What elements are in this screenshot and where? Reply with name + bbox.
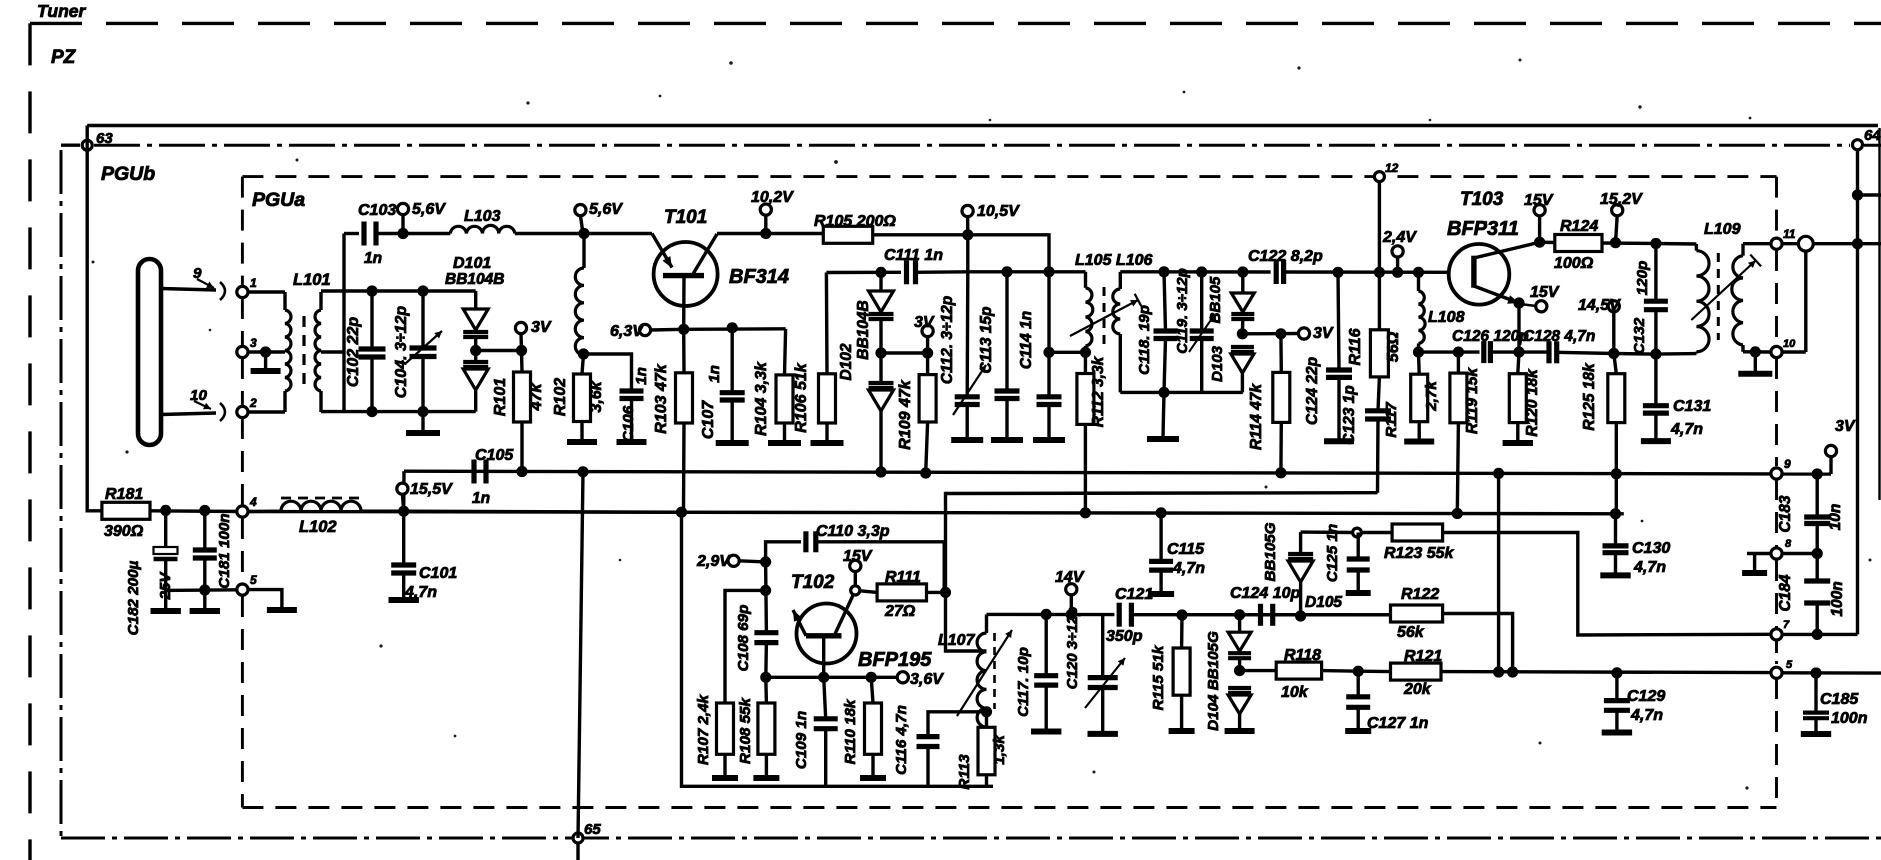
node output socket circle bbox=[1782, 236, 1881, 251]
svg-text:C181 100n: C181 100n bbox=[216, 513, 233, 588]
node D102 label bbox=[838, 300, 872, 380]
wire antenna lower lead bbox=[161, 413, 216, 415]
svg-text:C101: C101 bbox=[419, 565, 457, 582]
svg-text:R102: R102 bbox=[552, 378, 569, 416]
capacitor C102 22p bbox=[345, 291, 386, 412]
capacitor C182 200u 25V bbox=[125, 510, 178, 635]
svg-text:10,2V: 10,2V bbox=[751, 189, 794, 206]
svg-text:C125 1n: C125 1n bbox=[1324, 524, 1341, 582]
svg-text:D104 BB105G: D104 BB105G bbox=[1205, 631, 1222, 731]
node junction 2.4V bbox=[1392, 267, 1403, 278]
svg-text:PGUa: PGUa bbox=[252, 189, 305, 211]
capacitor C127 1n bbox=[1346, 671, 1428, 732]
node junction 10.5V on rail bbox=[962, 229, 973, 240]
svg-text:C115: C115 bbox=[1167, 541, 1205, 558]
svg-text:C119. 3÷12p: C119. 3÷12p bbox=[1174, 268, 1191, 354]
node pin 7 bbox=[1771, 619, 1790, 640]
ground at R120 bbox=[1503, 440, 1533, 446]
wire oscillator feedback to C123 bbox=[946, 493, 1378, 593]
ground at L109 bbox=[1738, 352, 1772, 374]
node T102 collector circle bbox=[851, 586, 860, 595]
wire antenna upper lead bbox=[161, 289, 216, 291]
resistor R111 27ohm bbox=[860, 569, 946, 620]
node junction R111 out bbox=[940, 587, 951, 598]
wire L103 to T101 bbox=[515, 232, 584, 235]
terminal 15V at T102 bbox=[843, 548, 873, 586]
capacitor C120 3+12p (trimmer) bbox=[1064, 607, 1125, 732]
svg-text:R116: R116 bbox=[1347, 328, 1364, 365]
svg-text:12: 12 bbox=[1385, 161, 1399, 175]
svg-text:9: 9 bbox=[1784, 457, 1791, 471]
node junction R110 top bbox=[866, 672, 877, 683]
svg-text:27Ω: 27Ω bbox=[884, 603, 916, 620]
capacitor C108 69p bbox=[735, 562, 778, 677]
ground at C112 bbox=[951, 437, 983, 443]
node connector socket at pin 2 bbox=[220, 403, 225, 421]
node junction R109 bottom on rail bbox=[920, 467, 931, 478]
wire: PGUb solid border top bbox=[87, 126, 1879, 501]
ground at C127 bbox=[1345, 728, 1371, 734]
svg-text:R110 18k: R110 18k bbox=[842, 698, 859, 764]
capacitor C124 10p bbox=[1230, 585, 1391, 626]
wire C110 branch bbox=[766, 542, 801, 562]
node junction C102 top bbox=[366, 285, 377, 296]
capacitor C124 22p bbox=[1304, 272, 1352, 439]
node junction base wire left bbox=[760, 672, 771, 683]
ground at C129 bbox=[1602, 730, 1632, 736]
svg-text:3V: 3V bbox=[531, 319, 552, 336]
terminal 10.2V bbox=[751, 189, 794, 234]
svg-text:R122: R122 bbox=[1401, 586, 1439, 603]
svg-text:R101: R101 bbox=[492, 378, 509, 416]
svg-text:5: 5 bbox=[250, 573, 257, 587]
node junction R125 rail472 bbox=[1611, 468, 1622, 479]
capacitor C121 350p bbox=[1106, 586, 1391, 645]
transistor T101 circle bbox=[654, 242, 718, 306]
node junction L109 ground bbox=[1750, 346, 1761, 357]
svg-text:C112. 3÷12p: C112. 3÷12p bbox=[939, 296, 956, 384]
node junction C184 top bbox=[1812, 548, 1823, 559]
ground at R117 bbox=[1404, 439, 1434, 445]
svg-text:14V: 14V bbox=[1055, 569, 1085, 586]
node junction C118 top bbox=[1158, 266, 1169, 277]
node junction pin65 wire top bbox=[577, 466, 588, 477]
wire rail to L109 bbox=[1656, 242, 1697, 246]
svg-text:L101: L101 bbox=[293, 271, 331, 289]
svg-text:8: 8 bbox=[1785, 538, 1792, 550]
resistor R104 3.3k bbox=[753, 329, 793, 440]
svg-text:65: 65 bbox=[584, 821, 601, 838]
ground at pin 3 bbox=[251, 352, 281, 371]
svg-text:C120 3÷12p: C120 3÷12p bbox=[1064, 607, 1081, 689]
node pin 65 on PZ border bbox=[573, 821, 601, 843]
svg-text:6,3V: 6,3V bbox=[610, 323, 644, 340]
inductor L107 bbox=[938, 614, 995, 727]
ground at C120 bbox=[1088, 731, 1118, 737]
node junction 14V bbox=[1066, 609, 1077, 620]
svg-text:C106: C106 bbox=[620, 405, 637, 442]
wire pin63 to R181 bbox=[87, 126, 102, 511]
capacitor C104 3+12p (trimmer) bbox=[393, 291, 442, 412]
svg-text:C124 10p: C124 10p bbox=[1230, 585, 1300, 602]
node pin 4 bbox=[237, 495, 257, 517]
node D104 label bbox=[1205, 631, 1222, 731]
node pin 63 bbox=[82, 130, 113, 150]
terminal 10.5V bbox=[962, 203, 1020, 235]
wire C132 bottom to L109 bbox=[1656, 352, 1697, 356]
node junction R119 top bbox=[1453, 347, 1464, 358]
node D105 label bbox=[1262, 522, 1342, 611]
svg-text:3V: 3V bbox=[914, 314, 935, 331]
svg-text:56Ω: 56Ω bbox=[1385, 331, 1402, 362]
node L101 core bbox=[302, 316, 305, 388]
wire pin5 node bbox=[166, 588, 238, 592]
transistor T102 internals bbox=[793, 590, 855, 677]
transistor T101 internals bbox=[652, 234, 717, 330]
capacitor C101 4.7n bbox=[391, 511, 457, 601]
svg-text:3V: 3V bbox=[1313, 325, 1334, 342]
svg-text:R113: R113 bbox=[956, 754, 973, 790]
svg-text:C102 22p: C102 22p bbox=[345, 317, 362, 387]
resistor R105 200 ohm bbox=[814, 213, 896, 243]
inductor L101 primary bbox=[285, 292, 291, 412]
inductor L109 secondary bbox=[1732, 244, 1743, 352]
resistor R122 56k bbox=[1391, 586, 1443, 641]
svg-text:10k: 10k bbox=[1281, 684, 1309, 701]
terminal 14.5V bbox=[1578, 297, 1621, 354]
svg-text:C114 1n: C114 1n bbox=[1018, 311, 1035, 369]
capacitor C107 1n bbox=[700, 328, 745, 440]
node junction C104 bottom bbox=[417, 406, 428, 417]
wire pin2 to L101 bbox=[248, 410, 285, 413]
node junction R119 bottom bbox=[1452, 508, 1463, 519]
inductor L109 primary bbox=[1696, 244, 1709, 354]
diode D102 varactor pair BB104B bbox=[869, 272, 894, 472]
svg-text:C110 3,3p: C110 3,3p bbox=[816, 523, 890, 540]
svg-text:5,6V: 5,6V bbox=[412, 201, 446, 218]
svg-text:15,2V: 15,2V bbox=[1600, 191, 1643, 208]
wire R102 to C106 bbox=[584, 354, 632, 391]
node pin 3 bbox=[237, 336, 257, 358]
svg-text:3V: 3V bbox=[1835, 418, 1856, 435]
svg-text:100Ω: 100Ω bbox=[1554, 255, 1594, 272]
node D102 bottom junction on rail bbox=[875, 466, 886, 477]
wire 14V node bbox=[987, 613, 1115, 617]
terminal 3V at D103 bbox=[1298, 325, 1333, 342]
antenna symbol bbox=[138, 259, 161, 445]
wire pin3 tap bbox=[248, 350, 285, 353]
wire T101 base bias bbox=[684, 327, 786, 331]
svg-text:D105: D105 bbox=[1305, 594, 1342, 611]
svg-text:100n: 100n bbox=[1831, 710, 1868, 727]
capacitor C183 10n bbox=[1777, 474, 1844, 554]
resistor R116 56ohm bbox=[1347, 272, 1402, 377]
node junction L108 top bbox=[1413, 267, 1424, 278]
node L109 label bbox=[1704, 221, 1741, 238]
ground at C106 bbox=[617, 439, 647, 445]
ground at tank3 bbox=[1147, 392, 1179, 439]
svg-text:L108: L108 bbox=[1428, 309, 1465, 326]
svg-text:15V: 15V bbox=[1524, 192, 1554, 209]
svg-text:4: 4 bbox=[249, 495, 257, 509]
svg-text:2,9V: 2,9V bbox=[696, 553, 731, 570]
wire D101 junction to R101 bbox=[476, 349, 522, 352]
node D103 mid junction bbox=[1237, 328, 1248, 339]
resistor R125 18k bbox=[1581, 354, 1625, 514]
svg-text:64: 64 bbox=[1864, 127, 1881, 144]
node junction R112 wire bbox=[1043, 347, 1054, 358]
svg-text:1n: 1n bbox=[706, 365, 723, 383]
node junction L108 bottom bbox=[1413, 347, 1424, 358]
wire output socket loop bbox=[1804, 251, 1807, 352]
node PGUa label bbox=[252, 189, 305, 211]
ground at pin 8 bbox=[1742, 554, 1767, 574]
svg-text:R109 47k: R109 47k bbox=[897, 379, 914, 449]
inductor L104 collector feed bbox=[575, 234, 584, 356]
svg-text:T101: T101 bbox=[664, 207, 707, 228]
svg-text:R121: R121 bbox=[1404, 648, 1442, 665]
svg-text:C185: C185 bbox=[1820, 691, 1859, 708]
svg-text:C105: C105 bbox=[475, 447, 514, 464]
wire R181 to pin 4 bbox=[150, 509, 242, 513]
wire L102 node to T102 box bbox=[404, 511, 682, 512]
wire rail 472 left drop to L102 node bbox=[402, 471, 406, 511]
wire top rail to L103 bbox=[403, 232, 450, 235]
svg-text:R125 18k: R125 18k bbox=[1581, 362, 1598, 431]
node T103 label bbox=[1447, 189, 1519, 240]
svg-text:1n: 1n bbox=[472, 490, 490, 507]
svg-text:10,5V: 10,5V bbox=[977, 203, 1020, 220]
svg-text:C111 1n: C111 1n bbox=[884, 247, 943, 264]
node junction C124-22p top bbox=[1332, 267, 1343, 278]
svg-text:C109 1n: C109 1n bbox=[793, 711, 810, 769]
ground at R115 bbox=[1169, 728, 1195, 734]
svg-text:R123 55k: R123 55k bbox=[1384, 545, 1454, 562]
node junction T102 base bbox=[818, 672, 829, 683]
node junction T101 base bbox=[678, 324, 689, 335]
node junction C181 pin5 wire bbox=[199, 584, 210, 595]
node junction C184 bottom bbox=[1812, 629, 1823, 640]
node junction C114 top bbox=[1043, 266, 1054, 277]
diode D103 varactor pair BB105 bbox=[1231, 272, 1254, 392]
inductor L105 bbox=[1086, 272, 1093, 353]
wire T102 block outline bbox=[682, 512, 994, 786]
node junction 10.2V on rail bbox=[760, 228, 771, 239]
capacitor C105 1n bbox=[472, 447, 514, 507]
capacitor C115 4.7n bbox=[1149, 513, 1205, 592]
terminal 3.6V bbox=[897, 671, 944, 688]
diode D105 BB105 bbox=[1288, 532, 1313, 616]
node arrow 10 bbox=[190, 387, 211, 409]
ground at C182 bbox=[151, 608, 181, 614]
node junction R122 drop bbox=[1507, 666, 1518, 677]
svg-text:C126 120p: C126 120p bbox=[1452, 328, 1529, 345]
ground at C107 bbox=[716, 440, 749, 446]
node junction C107 top bbox=[727, 322, 738, 333]
svg-text:R120 18k: R120 18k bbox=[1524, 368, 1541, 437]
node junction L102 C101 bbox=[398, 506, 409, 517]
wire tank1 top rail bbox=[321, 289, 476, 292]
node junction C132 top bbox=[1650, 238, 1661, 249]
resistor R121 20k bbox=[1358, 648, 1442, 698]
diode D101 varactor pair BB104B bbox=[463, 291, 488, 412]
transistor T103 internals bbox=[1474, 242, 1540, 304]
terminal 3V at D102 bbox=[914, 314, 935, 353]
resistor R107 2.4k bbox=[695, 693, 734, 776]
svg-text:C116 4,7n: C116 4,7n bbox=[893, 705, 910, 775]
wire C114 to R112 bbox=[1049, 351, 1086, 354]
svg-text:BFP311: BFP311 bbox=[1447, 218, 1519, 240]
node pin 12 on PGUa top border bbox=[1374, 161, 1398, 182]
svg-text:BB105: BB105 bbox=[1207, 276, 1224, 323]
terminal 2.9V bbox=[696, 553, 766, 570]
svg-text:R105 200Ω: R105 200Ω bbox=[814, 213, 896, 230]
node junction L107 bottom bbox=[981, 706, 992, 717]
terminal 14V bbox=[1055, 569, 1085, 615]
wire L101 secondary tap to C103 bbox=[321, 234, 344, 413]
svg-text:2,4V: 2,4V bbox=[1382, 229, 1417, 246]
capacitor C106 1n bbox=[620, 367, 651, 442]
inductor L102 bbox=[248, 498, 404, 536]
node D102 mid junction bbox=[875, 347, 886, 358]
ground at C130 bbox=[1600, 572, 1630, 578]
svg-text:T102: T102 bbox=[791, 572, 835, 593]
node junction R114 bottom on rail bbox=[1275, 467, 1286, 478]
resistor R108 55k bbox=[737, 677, 775, 776]
wire L109 secondary top to pin 11 bbox=[1743, 242, 1771, 245]
node junction on pin3 wire bbox=[260, 346, 271, 357]
wire pin5 to ground bbox=[248, 590, 282, 608]
ground at C185 bbox=[1801, 731, 1831, 737]
svg-text:R108 55k: R108 55k bbox=[737, 697, 754, 764]
svg-text:63: 63 bbox=[96, 130, 113, 147]
terminal 6.3V bbox=[610, 323, 684, 340]
wire tank1 bottom rail bbox=[321, 410, 476, 413]
node junction D104 top bbox=[1234, 609, 1245, 620]
capacitor C184 100n bbox=[1777, 554, 1846, 635]
capacitor C181 100n bbox=[193, 511, 233, 610]
svg-text:56k: 56k bbox=[1397, 624, 1425, 641]
node junction L105 bottom bbox=[1080, 347, 1091, 358]
node tuning arrow L109 bbox=[1691, 255, 1761, 320]
capacitor C116 4.7n bbox=[893, 705, 940, 786]
wire L109 secondary bottom to pin 10 bbox=[1743, 350, 1771, 354]
svg-text:2: 2 bbox=[249, 396, 257, 410]
inductor L106 bbox=[1113, 272, 1120, 393]
node junction R120 top bbox=[1513, 347, 1524, 358]
svg-text:C130: C130 bbox=[1632, 540, 1670, 557]
wire branch to edge y195 bbox=[1858, 193, 1881, 196]
node junction output line crossing bbox=[1852, 238, 1863, 249]
svg-text:14,5V: 14,5V bbox=[1578, 297, 1621, 314]
capacitor C110 3.3p bbox=[806, 523, 944, 592]
ground at R107 bbox=[712, 775, 738, 781]
node junction rail472 drop top bbox=[1493, 468, 1504, 479]
svg-text:100n: 100n bbox=[1829, 581, 1846, 616]
resistor R103 47k bbox=[653, 329, 693, 511]
wire tank3 bottom rail bbox=[1120, 391, 1243, 394]
svg-text:C184: C184 bbox=[1777, 574, 1794, 611]
node junction R109 top bbox=[922, 347, 933, 358]
svg-text:BF314: BF314 bbox=[729, 266, 789, 288]
node junction C115 top bbox=[1156, 507, 1167, 518]
svg-text:25V: 25V bbox=[157, 571, 174, 601]
wire pin5 rail to edge bbox=[1782, 671, 1881, 675]
wire emitter row to C132 bbox=[1614, 352, 1656, 356]
svg-text:R104 3,3k: R104 3,3k bbox=[753, 361, 770, 436]
ground bar at C124 bbox=[1324, 438, 1354, 444]
node junction R102 top bbox=[578, 348, 589, 359]
wire: PZ dash-dot border (left and bottom) bbox=[61, 150, 1881, 838]
svg-text:R124: R124 bbox=[1560, 218, 1598, 235]
node junction C185 top bbox=[1810, 667, 1821, 678]
svg-text:15,5V: 15,5V bbox=[410, 481, 453, 498]
node D101 mid junction bbox=[470, 345, 481, 356]
capacitor C125 1n bbox=[1324, 524, 1370, 591]
terminal 15V at T103 emitter bbox=[1524, 284, 1560, 312]
ground at R104 bbox=[768, 440, 801, 446]
node junction R114 top bbox=[1275, 328, 1286, 339]
node connector socket at pin 1 bbox=[220, 282, 225, 300]
capacitor C123 1p bbox=[1341, 377, 1391, 493]
wire pin7 node right bbox=[1782, 633, 1858, 636]
wire R105 to 10.5V bbox=[873, 235, 1049, 272]
wire R122 right lead bbox=[1443, 614, 1513, 673]
wire rail to T101 emitter bbox=[584, 232, 652, 235]
node junction C130 top bbox=[1610, 508, 1621, 519]
svg-text:C182 200µ: C182 200µ bbox=[125, 560, 142, 635]
svg-text:C117. 10p: C117. 10p bbox=[1015, 647, 1032, 717]
svg-text:R111: R111 bbox=[885, 569, 921, 586]
capacitor C129 4.7n bbox=[1604, 673, 1665, 731]
wire tank2 feed bbox=[968, 270, 1086, 273]
svg-text:10: 10 bbox=[1783, 338, 1796, 350]
resistor R117 2.7k bbox=[1383, 352, 1440, 439]
svg-text:3,6V: 3,6V bbox=[910, 671, 944, 688]
node junction C104 top bbox=[417, 285, 428, 296]
wire T101 collector rail bbox=[717, 232, 823, 235]
capacitor C122 8.2p bbox=[1248, 248, 1450, 284]
wire pin12 drop bbox=[1378, 182, 1381, 272]
resistor R114 47k bbox=[1248, 334, 1290, 473]
node pin 5 bbox=[237, 573, 257, 595]
node junction C129 top bbox=[1611, 667, 1622, 678]
node junction C117 top bbox=[1041, 609, 1052, 620]
svg-text:15V: 15V bbox=[1530, 284, 1560, 301]
svg-text:L103: L103 bbox=[464, 208, 501, 225]
ground at R106 bbox=[811, 440, 844, 446]
wire L107 tap bbox=[946, 592, 987, 651]
svg-text:C118. 19p: C118. 19p bbox=[1136, 305, 1153, 375]
capacitor C131 4.7n bbox=[1643, 354, 1711, 439]
ground at C117 bbox=[1031, 729, 1061, 735]
node tuning arrow L107 bbox=[957, 630, 1012, 716]
capacitor C119 3+12p (trimmer) bbox=[1174, 268, 1215, 392]
terminal 5.6V first bbox=[397, 201, 446, 234]
node junction C127 top bbox=[1353, 666, 1364, 677]
svg-text:5,6V: 5,6V bbox=[589, 201, 623, 218]
node junction R107 branch bbox=[760, 585, 771, 596]
node L101 label bbox=[293, 271, 331, 289]
node PGUb label bbox=[101, 163, 155, 185]
svg-text:15V: 15V bbox=[843, 548, 873, 565]
terminal 2.4V bbox=[1382, 229, 1417, 272]
svg-text:C121: C121 bbox=[1115, 586, 1153, 603]
ground at R108 bbox=[753, 775, 779, 781]
capacitor C111 1n bbox=[884, 247, 968, 284]
svg-text:R119 15k: R119 15k bbox=[1464, 367, 1481, 434]
wire T102 base node bbox=[766, 676, 898, 679]
